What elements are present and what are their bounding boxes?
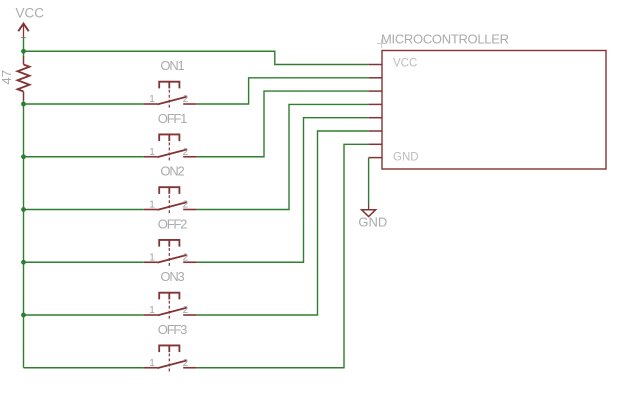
wire left bus to switch ON1 pin 1 [24, 103, 144, 105]
switch ON1 (pushbutton) [144, 82, 197, 109]
pin 2 of microcontroller (ON1 input) [369, 77, 382, 79]
switch OFF3 (pushbutton) [144, 345, 197, 372]
svg-text:ON3: ON3 [160, 269, 184, 284]
svg-text:1: 1 [149, 252, 155, 263]
switch OFF2 (pushbutton) [144, 240, 197, 267]
svg-text:OFF2: OFF2 [158, 216, 187, 231]
wire switch OFF2 pin 2 to microcontroller [197, 118, 369, 263]
svg-text:1: 1 [149, 200, 155, 211]
svg-text:1: 1 [149, 147, 155, 158]
wire left bus to switch ON3 pin 1 [24, 314, 144, 316]
svg-text:MICROCONTROLLER: MICROCONTROLLER [381, 32, 509, 47]
svg-text:1: 1 [149, 358, 155, 369]
pin 7 of microcontroller (OFF3 input) [369, 143, 382, 145]
junction dot 6 on left bus [21, 313, 26, 318]
wire switch ON2 pin 2 to microcontroller [197, 104, 369, 209]
pin GND of microcontroller [369, 157, 382, 159]
wire switch ON3 pin 2 to microcontroller [197, 131, 369, 315]
wire left bus (junction column) [23, 100, 25, 368]
svg-text:2: 2 [183, 94, 189, 105]
svg-text:2: 2 [183, 252, 189, 263]
wire microcontroller GND pin down to ground [368, 158, 370, 205]
wire VCC symbol to junction [23, 38, 25, 57]
origin cross of microcontroller [377, 39, 386, 48]
svg-text:1: 1 [149, 305, 155, 316]
op-amp-box: microcontroller U1 body [382, 51, 606, 170]
switch ON2 (pushbutton) [144, 187, 197, 214]
pin 3 of microcontroller (OFF1 input) [369, 90, 382, 92]
svg-text:OFF3: OFF3 [158, 322, 187, 337]
svg-text:ON2: ON2 [160, 164, 184, 179]
wire switch OFF1 pin 2 to microcontroller [197, 91, 369, 157]
ground symbol GND [362, 205, 376, 217]
svg-text:VCC: VCC [16, 6, 45, 21]
junction dot 1 on left bus [21, 49, 26, 54]
svg-text:GND: GND [358, 215, 387, 230]
wire left bus to switch ON2 pin 1 [24, 209, 144, 211]
pin 4 of microcontroller (ON2 input) [369, 103, 382, 105]
wire left bus to switch OFF2 pin 1 [24, 261, 144, 263]
svg-text:ON1: ON1 [160, 58, 184, 73]
wire left bus to switch OFF3 pin 1 [24, 367, 144, 369]
svg-text:2: 2 [183, 305, 189, 316]
junction dot 2 on left bus [21, 102, 26, 107]
junction dot 5 on left bus [21, 260, 26, 265]
switch ON3 (pushbutton) [144, 293, 197, 320]
svg-text:47: 47 [0, 70, 14, 84]
junction dot 4 on left bus [21, 207, 26, 212]
pin 6 of microcontroller (ON3 input) [369, 130, 382, 132]
power symbol VCC P1 [18, 24, 28, 38]
resistor R1 [18, 56, 30, 100]
pin VCC of microcontroller [369, 64, 382, 66]
svg-text:GND: GND [393, 152, 419, 164]
svg-text:OFF1: OFF1 [158, 111, 187, 126]
top bus wire from VCC junction to microcontroller VCC pin [24, 51, 369, 64]
svg-text:1: 1 [149, 94, 155, 105]
svg-text:2: 2 [183, 358, 189, 369]
wire switch ON1 pin 2 to microcontroller [197, 78, 369, 104]
wire left bus to switch OFF1 pin 1 [24, 156, 144, 158]
wire switch OFF3 pin 2 to microcontroller [197, 144, 369, 367]
svg-text:VCC: VCC [393, 57, 417, 69]
pin 5 of microcontroller (OFF2 input) [369, 117, 382, 119]
junction dot 3 on left bus [21, 154, 26, 159]
switch OFF1 (pushbutton) [144, 134, 197, 161]
svg-text:2: 2 [183, 147, 189, 158]
svg-text:2: 2 [183, 200, 189, 211]
